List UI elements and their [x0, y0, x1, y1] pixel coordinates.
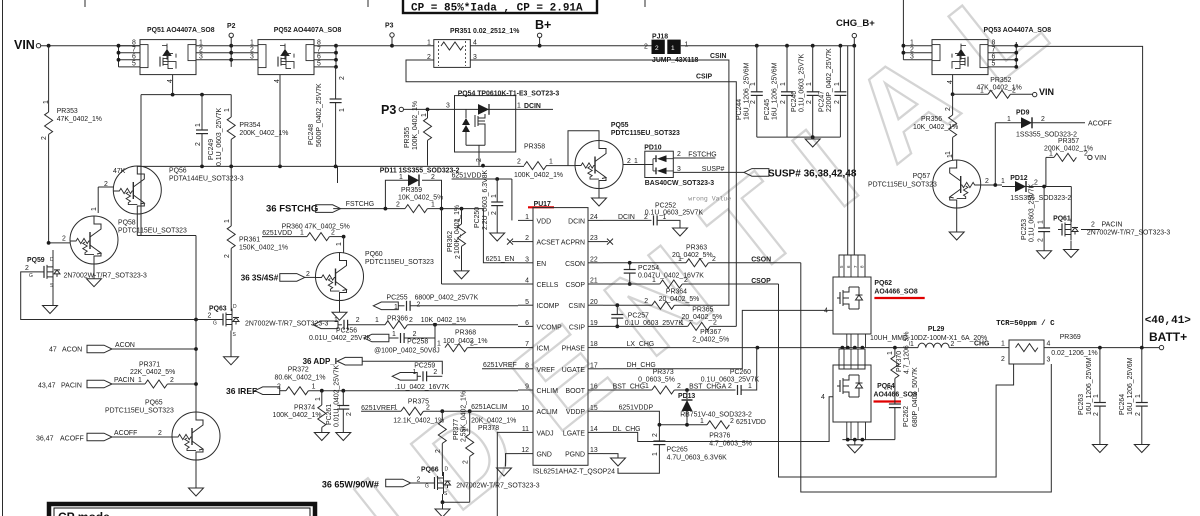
- svg-text:PDTC115EU_SOT323: PDTC115EU_SOT323: [105, 408, 174, 415]
- svg-text:CSON: CSON: [565, 261, 585, 268]
- svg-text:ACOFF: ACOFF: [60, 436, 84, 443]
- svg-text:PC247: PC247: [819, 91, 826, 112]
- svg-text:PQ52 AO4407A_SO8: PQ52 AO4407A_SO8: [274, 27, 342, 34]
- svg-text:2: 2: [41, 136, 48, 140]
- svg-text:1: 1: [700, 418, 704, 425]
- svg-text:PQ61: PQ61: [1053, 216, 1071, 223]
- svg-text:12: 12: [521, 447, 529, 454]
- svg-text:4: 4: [167, 79, 174, 83]
- svg-text:2_0402_5%: 2_0402_5%: [692, 337, 729, 344]
- svg-text:2: 2: [208, 313, 212, 320]
- svg-text:43,47: 43,47: [38, 383, 56, 390]
- svg-text:6800P_0402_25V7K: 6800P_0402_25V7K: [415, 295, 479, 302]
- svg-text:20K_0402_1%: 20K_0402_1%: [471, 418, 516, 425]
- svg-text:PD12: PD12: [1010, 175, 1027, 182]
- svg-text:1: 1: [392, 331, 396, 338]
- red mark PQ64: [874, 400, 902, 402]
- svg-text:1: 1: [1093, 394, 1100, 398]
- svg-text:13: 13: [590, 447, 598, 454]
- svg-text:1: 1: [549, 159, 553, 166]
- svg-text:PR355: PR355: [404, 127, 411, 148]
- svg-text:1SS355_SOD323-2: 1SS355_SOD323-2: [1010, 195, 1071, 202]
- svg-text:4: 4: [1047, 341, 1051, 348]
- wire VADJ down: [497, 432, 518, 516]
- svg-text:PD10: PD10: [644, 145, 661, 152]
- svg-text:CP mode: CP mode: [58, 510, 110, 516]
- svg-text:PC256: PC256: [336, 328, 357, 335]
- svg-text:2.55K_0402_1%: 2.55K_0402_1%: [461, 391, 468, 442]
- IC pin stubs left: [518, 220, 533, 453]
- svg-text:PR353: PR353: [57, 108, 78, 115]
- svg-text:8: 8: [132, 40, 136, 47]
- svg-text:5600P_0402_25V7K: 5600P_0402_25V7K: [316, 83, 323, 147]
- svg-text:CP = 85%*Iada , CP = 2.91A: CP = 85%*Iada , CP = 2.91A: [411, 3, 583, 15]
- svg-text:PDTC115EU_SOT323: PDTC115EU_SOT323: [868, 182, 937, 189]
- svg-text:2: 2: [396, 202, 400, 209]
- svg-text:PR369: PR369: [1060, 334, 1081, 341]
- svg-text:PQ57: PQ57: [913, 173, 931, 180]
- svg-text:2: 2: [834, 100, 841, 104]
- svg-text:ACON: ACON: [115, 342, 135, 349]
- svg-text:2: 2: [433, 369, 437, 376]
- svg-text:PR362: PR362: [447, 231, 454, 252]
- resistor PR364 20_0402_5% (CSOP): [603, 283, 660, 285]
- svg-text:1: 1: [375, 317, 379, 324]
- svg-text:1: 1: [517, 103, 521, 110]
- wire PQ60 collector: [343, 237, 345, 253]
- svg-text:36 IREF: 36 IREF: [226, 386, 257, 396]
- wire CELLS: [442, 283, 519, 285]
- svg-text:PQ63: PQ63: [209, 306, 227, 313]
- svg-text:6251VREF: 6251VREF: [483, 362, 517, 369]
- svg-text:100_0402_1%: 100_0402_1%: [443, 338, 487, 345]
- wire CHG_B+ down to PQ62: [848, 46, 855, 255]
- svg-text:PR359: PR359: [401, 187, 422, 194]
- svg-text:80.6K_0402_1%: 80.6K_0402_1%: [275, 375, 326, 382]
- svg-text:4: 4: [824, 308, 828, 315]
- wire PQ59 gate to row: [21, 272, 220, 320]
- svg-text:9: 9: [525, 384, 529, 391]
- svg-text:2: 2: [806, 100, 813, 104]
- svg-text:8: 8: [525, 362, 529, 369]
- ground IC GND: [497, 468, 512, 476]
- svg-text:2: 2: [339, 76, 346, 80]
- svg-text:VIN: VIN: [14, 38, 35, 52]
- svg-text:CSOP: CSOP: [751, 278, 771, 285]
- svg-text:4: 4: [947, 80, 954, 84]
- svg-text:1: 1: [634, 158, 638, 165]
- svg-text:PHASE: PHASE: [562, 346, 586, 353]
- svg-text:1: 1: [224, 108, 231, 112]
- wire PQ51 to P2 bus: [196, 38, 231, 67]
- svg-text:6251VDD: 6251VDD: [736, 419, 766, 426]
- wire CSON kelvin sense: [801, 263, 1052, 492]
- svg-text:G: G: [213, 321, 217, 327]
- svg-text:1: 1: [394, 304, 398, 311]
- svg-text:PC263: PC263: [1078, 394, 1085, 415]
- transistor PQ64 AO4466_SO8: [839, 349, 865, 369]
- wire PQ63 source to ground: [230, 331, 232, 357]
- svg-text:1: 1: [463, 428, 470, 432]
- svg-text:0.01U_0402_25V7K: 0.01U_0402_25V7K: [334, 365, 341, 427]
- svg-text:DL_CHG: DL_CHG: [613, 426, 641, 433]
- svg-text:0.1U_0603_25V7K: 0.1U_0603_25V7K: [799, 53, 806, 112]
- svg-text:36,47: 36,47: [36, 436, 54, 443]
- svg-text:7: 7: [525, 341, 529, 348]
- svg-text:CELLS: CELLS: [537, 282, 559, 289]
- svg-text:2: 2: [1001, 356, 1005, 363]
- svg-text:2: 2: [158, 430, 162, 437]
- svg-text:2: 2: [910, 47, 914, 54]
- svg-text:5: 5: [525, 299, 529, 306]
- svg-text:1: 1: [491, 194, 498, 198]
- svg-text:2: 2: [409, 317, 413, 324]
- svg-text:VCOMP: VCOMP: [537, 324, 563, 331]
- wire PQ53 right bus: [988, 42, 1016, 67]
- svg-text:P3: P3: [381, 103, 396, 117]
- svg-text:PR377: PR377: [453, 419, 460, 440]
- svg-text:2: 2: [476, 158, 483, 162]
- svg-text:2: 2: [951, 341, 955, 348]
- svg-text:BOOT: BOOT: [565, 388, 585, 395]
- wire PQ52 right bus: [314, 46, 336, 67]
- svg-text:0.047U_0402_16V7K: 0.047U_0402_16V7K: [638, 272, 704, 279]
- svg-text:1: 1: [224, 219, 231, 223]
- svg-text:6251ACLIM: 6251ACLIM: [471, 404, 508, 411]
- svg-text:10K_0402_1%: 10K_0402_1%: [421, 317, 466, 324]
- wire PQ51 left pin bus: [119, 46, 141, 67]
- svg-text:PR368: PR368: [455, 330, 476, 337]
- svg-text:PC253: PC253: [1021, 219, 1028, 240]
- svg-text:1: 1: [1049, 151, 1053, 158]
- svg-text:1: 1: [652, 277, 656, 284]
- svg-text:SUSP# 36,38,42,48: SUSP# 36,38,42,48: [768, 169, 857, 180]
- svg-text:2: 2: [346, 412, 353, 416]
- svg-text:CHG_B+: CHG_B+: [836, 18, 875, 29]
- svg-text:PDTC115EU_SOT323: PDTC115EU_SOT323: [611, 130, 680, 137]
- svg-text:1: 1: [678, 256, 682, 263]
- svg-text:2: 2: [224, 254, 231, 258]
- svg-text:100K_0402_1%: 100K_0402_1%: [273, 412, 322, 419]
- svg-text:@100P_0402_50V8J: @100P_0402_50V8J: [374, 348, 440, 355]
- svg-text:PR374: PR374: [294, 405, 315, 412]
- IC PU17 body: [533, 208, 588, 466]
- svg-text:6251VDD: 6251VDD: [452, 173, 482, 180]
- wire PQ53 feed bus from top: [903, 0, 932, 60]
- svg-text:2: 2: [1135, 412, 1142, 416]
- svg-text:PDTC115EU_SOT323: PDTC115EU_SOT323: [365, 259, 434, 266]
- svg-text:PR358: PR358: [524, 144, 545, 151]
- svg-text:PJ18: PJ18: [652, 34, 668, 41]
- ground PQ59: [43, 306, 58, 314]
- svg-text:DCIN: DCIN: [568, 218, 585, 225]
- svg-text:AO4466_SO8: AO4466_SO8: [874, 289, 917, 296]
- svg-text:6251_EN: 6251_EN: [486, 256, 515, 263]
- svg-text:3: 3: [910, 54, 914, 61]
- svg-text:11: 11: [522, 426, 529, 433]
- svg-text:<40,41>: <40,41>: [1145, 315, 1192, 327]
- svg-text:2: 2: [455, 255, 462, 259]
- svg-text:PQ59: PQ59: [27, 257, 45, 264]
- svg-text:2: 2: [426, 404, 430, 411]
- node VIN/PR353: [47, 44, 51, 48]
- svg-text:3: 3: [1047, 357, 1051, 364]
- svg-text:PR351 0.02_2512_1%: PR351 0.02_2512_1%: [450, 28, 519, 35]
- terminal VIN (right): [1033, 92, 1037, 96]
- svg-text:PC264: PC264: [1119, 394, 1126, 415]
- svg-text:0.01U_0402_25V7K: 0.01U_0402_25V7K: [309, 335, 371, 342]
- svg-text:2: 2: [644, 298, 648, 305]
- svg-text:1: 1: [748, 383, 752, 390]
- svg-text:22K_0402_5%: 22K_0402_5%: [130, 369, 175, 376]
- svg-text:D: D: [233, 304, 237, 310]
- svg-text:D: D: [445, 467, 449, 473]
- wire PQ59 source to ground: [52, 283, 54, 306]
- svg-text:1: 1: [750, 82, 757, 86]
- wire PD9 anode down to PQ57 base node: [994, 123, 996, 187]
- svg-text:LGATE: LGATE: [563, 430, 585, 437]
- svg-text:PACIN: PACIN: [114, 377, 135, 384]
- wire PQ65 emitter to ground: [195, 460, 197, 488]
- svg-text:PC262: PC262: [903, 406, 910, 427]
- svg-text:1: 1: [91, 207, 98, 211]
- svg-text:PQ56: PQ56: [169, 168, 187, 175]
- svg-text:G: G: [425, 484, 429, 490]
- svg-text:1: 1: [312, 384, 316, 391]
- svg-text:2: 2: [713, 319, 717, 326]
- svg-text:0.02_1206_1%: 0.02_1206_1%: [1051, 350, 1097, 357]
- svg-text:1: 1: [1001, 341, 1005, 348]
- svg-text:2: 2: [677, 151, 681, 158]
- svg-text:EN: EN: [537, 261, 547, 268]
- node rail y=94.6: [141, 94, 231, 96]
- svg-text:2: 2: [417, 477, 421, 484]
- svg-text:CHLIM: CHLIM: [537, 388, 559, 395]
- IC pin stubs right: [588, 220, 603, 453]
- capacitor PC256 0.01U_0402_25V7K row VCOMP: [313, 321, 338, 329]
- svg-text:1: 1: [680, 319, 684, 326]
- svg-text:150K_0402_1%: 150K_0402_1%: [239, 245, 288, 252]
- wire PQ64 source pins to ground: [847, 422, 866, 440]
- svg-text:2: 2: [525, 235, 529, 242]
- svg-text:3: 3: [446, 103, 450, 110]
- svg-text:CHG: CHG: [974, 341, 989, 348]
- svg-text:2N7002W-T/R7_SOT323-3: 2N7002W-T/R7_SOT323-3: [456, 483, 540, 490]
- svg-text:CSOP: CSOP: [565, 282, 585, 289]
- wire PQ56 emitter to bus: [137, 214, 196, 403]
- svg-text:1: 1: [947, 154, 954, 158]
- svg-text:PACIN: PACIN: [61, 383, 82, 390]
- wire PR351.2 CSIP sense: [406, 60, 736, 326]
- svg-text:PQ60: PQ60: [365, 251, 383, 258]
- svg-text:4.7_1206_5%: 4.7_1206_5%: [904, 331, 911, 374]
- red mark PQ62: [874, 297, 924, 299]
- svg-text:BATT+: BATT+: [1149, 330, 1187, 344]
- svg-text:4: 4: [274, 79, 281, 83]
- wire 6251VDD to IC VDD: [511, 179, 513, 220]
- svg-text:1: 1: [671, 45, 675, 52]
- svg-text:FSTCHG: FSTCHG: [688, 152, 716, 159]
- svg-text:PC244: PC244: [736, 99, 743, 120]
- svg-text:2: 2: [277, 384, 281, 391]
- svg-text:1: 1: [645, 383, 649, 390]
- wire PQ62 source pins to LX: [847, 334, 866, 348]
- svg-text:47: 47: [49, 347, 57, 354]
- svg-text:36 ADP_I: 36 ADP_I: [303, 357, 337, 366]
- svg-text:ISL6251AHAZ-T_QSOP24: ISL6251AHAZ-T_QSOP24: [533, 469, 615, 476]
- capacitor PC258 @100P_0402_50V8J: [364, 334, 389, 342]
- svg-text:PDTC115EU_SOT323: PDTC115EU_SOT323: [118, 228, 187, 235]
- node line switched-VIN y=166.4: [137, 165, 524, 167]
- watermark CONFIDENTIAL diagonal: [332, 0, 1074, 516]
- svg-text:PC261: PC261: [326, 404, 333, 425]
- svg-text:BAS40CW_SOT323-3: BAS40CW_SOT323-3: [645, 180, 714, 187]
- svg-text:PD11 1SS355_SOD323-2: PD11 1SS355_SOD323-2: [380, 167, 460, 174]
- svg-text:16U_1206_25V6M: 16U_1206_25V6M: [772, 62, 779, 120]
- no-connect ACSET: [512, 241, 518, 243]
- svg-text:1: 1: [421, 113, 428, 117]
- svg-text:17: 17: [590, 362, 598, 369]
- svg-text:PR378: PR378: [478, 425, 499, 432]
- svg-text:2: 2: [1038, 238, 1045, 242]
- svg-text:2: 2: [945, 107, 952, 111]
- svg-text:4: 4: [525, 278, 529, 285]
- svg-text:2: 2: [644, 214, 648, 221]
- svg-text:1: 1: [336, 242, 343, 246]
- svg-text:PQ58: PQ58: [118, 220, 136, 227]
- svg-text:VDD: VDD: [537, 218, 552, 225]
- wire FSTCHG row: [333, 208, 405, 210]
- svg-text:2200P_0402_25V7K: 2200P_0402_25V7K: [826, 48, 833, 112]
- svg-text:47K_0402_1%: 47K_0402_1%: [57, 116, 102, 123]
- svg-text:1: 1: [1038, 220, 1045, 224]
- svg-text:wrong Value: wrong Value: [688, 196, 731, 203]
- svg-text:22: 22: [590, 256, 598, 263]
- wire PQ51 pin4 down: [172, 75, 174, 95]
- wire loop left: [141, 95, 196, 236]
- wire cap bank bottom rail: [757, 136, 841, 138]
- svg-text:PQ62: PQ62: [874, 280, 892, 287]
- svg-text:1: 1: [1135, 394, 1142, 398]
- svg-text:1: 1: [806, 82, 813, 86]
- svg-text:2: 2: [435, 449, 442, 453]
- svg-text:2: 2: [517, 159, 521, 166]
- wire P3 to PR351: [392, 45, 434, 47]
- svg-text:1: 1: [910, 341, 914, 348]
- svg-text:2: 2: [25, 265, 29, 272]
- wire PQ52 bus to P3 row: [336, 45, 392, 47]
- svg-text:RB751V-40_SOD323-2: RB751V-40_SOD323-2: [680, 412, 752, 419]
- svg-text:2: 2: [730, 418, 734, 425]
- flag SUSP#: [744, 169, 769, 177]
- svg-text:2: 2: [1091, 222, 1095, 229]
- svg-text:1: 1: [300, 230, 304, 237]
- svg-text:PDTA144EU_SOT323-3: PDTA144EU_SOT323-3: [169, 176, 244, 183]
- svg-text:PQ51 AO4407A_SO8: PQ51 AO4407A_SO8: [147, 27, 215, 34]
- svg-text:36 FSTCHG: 36 FSTCHG: [266, 204, 318, 215]
- svg-text:2: 2: [491, 211, 498, 215]
- svg-text:ACPRN: ACPRN: [561, 240, 585, 247]
- svg-text:1: 1: [910, 40, 914, 47]
- svg-text:2: 2: [780, 100, 787, 104]
- wire PQ57 emitter to ground: [956, 208, 958, 232]
- svg-text:100K_0402_1%: 100K_0402_1%: [514, 172, 563, 179]
- svg-text:7: 7: [132, 47, 136, 54]
- wire PQ59 drain stub: [52, 250, 54, 261]
- svg-text:PR354: PR354: [239, 122, 260, 129]
- svg-text:1: 1: [780, 82, 787, 86]
- svg-text:24: 24: [590, 214, 598, 221]
- svg-text:2: 2: [470, 341, 474, 348]
- top edge wire stubs: [84, 0, 86, 7]
- svg-text:PR364: PR364: [666, 289, 687, 296]
- svg-text:VREF: VREF: [537, 367, 555, 374]
- wire PQ61 source to ground: [1070, 241, 1072, 250]
- svg-text:16U_1206_25V6M: 16U_1206_25V6M: [1086, 357, 1093, 415]
- resistor PR376 4.7_0603_5%: [659, 424, 707, 426]
- svg-text:16: 16: [590, 384, 598, 391]
- svg-text:2: 2: [644, 44, 648, 51]
- svg-text:CSIP: CSIP: [569, 324, 585, 331]
- svg-text:2: 2: [463, 460, 470, 464]
- svg-text:VDDP: VDDP: [566, 409, 586, 416]
- svg-text:PQ53 AO4407A_SO8: PQ53 AO4407A_SO8: [984, 27, 1052, 34]
- svg-text:2: 2: [712, 256, 716, 263]
- node line to PQ55 collector: [568, 131, 599, 166]
- svg-text:PC265: PC265: [667, 447, 688, 454]
- svg-text:1: 1: [437, 341, 441, 348]
- svg-text:2: 2: [170, 377, 174, 384]
- svg-text:0.1U_0603_25V7K: 0.1U_0603_25V7K: [1029, 183, 1036, 242]
- CP mode box: [49, 504, 315, 516]
- svg-text:LX_CHG: LX_CHG: [627, 341, 655, 348]
- svg-text:PQ55: PQ55: [611, 122, 629, 129]
- svg-text:P2: P2: [227, 23, 236, 30]
- svg-text:CSIN: CSIN: [569, 303, 585, 310]
- svg-text:1: 1: [1007, 116, 1011, 123]
- svg-text:16U_1206_25V6M: 16U_1206_25V6M: [744, 62, 751, 120]
- wire PR351.4 to B+ rail: [470, 45, 539, 47]
- svg-text:1: 1: [399, 174, 403, 181]
- wire PJ18 to CHG_B+: [681, 45, 855, 47]
- svg-text:1: 1: [431, 202, 435, 209]
- wire P2 to PQ52: [231, 46, 258, 60]
- svg-text:PC254: PC254: [638, 265, 659, 272]
- svg-text:200K_0402_1%: 200K_0402_1%: [239, 130, 288, 137]
- terminal BATT+: [1159, 345, 1163, 349]
- svg-text:ICM: ICM: [537, 346, 550, 353]
- svg-text:PC258: PC258: [407, 339, 428, 346]
- svg-text:PL29: PL29: [928, 326, 945, 333]
- svg-text:1: 1: [652, 452, 659, 456]
- svg-text:ACOFF: ACOFF: [114, 430, 137, 437]
- svg-text:1: 1: [394, 404, 398, 411]
- resistor PR367 2_0402_5% (CSIP): [603, 325, 688, 327]
- svg-text:1: 1: [334, 317, 338, 324]
- svg-text:1: 1: [427, 40, 431, 47]
- node PQ63 gate junction: [194, 318, 198, 322]
- wire PQ60 collector node riser: [337, 166, 339, 183]
- wire PQ55 base to PD10: [623, 164, 645, 166]
- svg-text:12.1K_0402_1%: 12.1K_0402_1%: [393, 418, 444, 425]
- svg-text:1: 1: [525, 214, 529, 221]
- svg-text:36 65W/90W#: 36 65W/90W#: [322, 480, 379, 490]
- svg-text:PR361: PR361: [239, 237, 260, 244]
- svg-text:5: 5: [132, 61, 136, 68]
- svg-text:PR363: PR363: [686, 245, 707, 252]
- svg-text:PR357: PR357: [1058, 138, 1079, 145]
- svg-text:2N7002W-T/R7_SOT323-3: 2N7002W-T/R7_SOT323-3: [1087, 230, 1171, 237]
